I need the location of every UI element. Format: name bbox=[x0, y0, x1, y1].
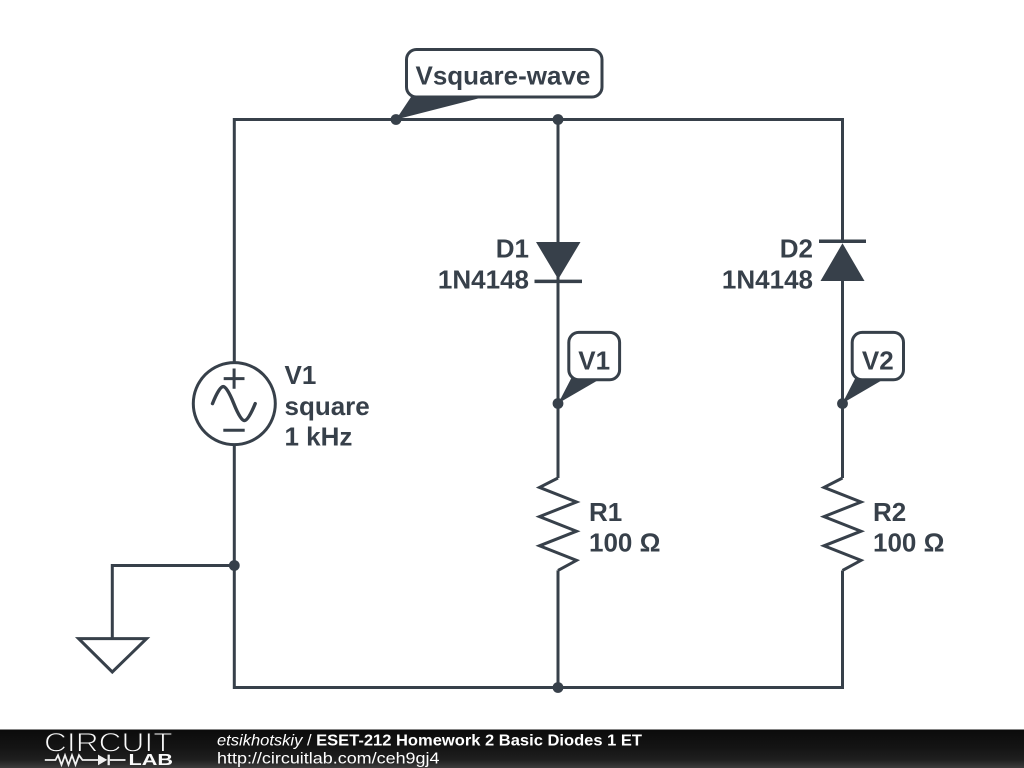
svg-text:V2: V2 bbox=[862, 346, 894, 376]
svg-text:D1: D1 bbox=[496, 233, 529, 263]
svg-text:square: square bbox=[285, 391, 370, 421]
svg-text:1 kHz: 1 kHz bbox=[285, 422, 353, 452]
svg-text:http://circuitlab.com/ceh9gj4: http://circuitlab.com/ceh9gj4 bbox=[217, 750, 440, 767]
svg-text:1N4148: 1N4148 bbox=[438, 265, 529, 295]
svg-text:V1: V1 bbox=[578, 346, 610, 376]
svg-text:R2: R2 bbox=[873, 497, 906, 527]
svg-text:Vsquare-wave: Vsquare-wave bbox=[416, 61, 591, 91]
svg-text:R1: R1 bbox=[589, 497, 622, 527]
svg-text:LAB: LAB bbox=[129, 752, 174, 768]
svg-text:1N4148: 1N4148 bbox=[722, 265, 813, 295]
svg-text:100 Ω: 100 Ω bbox=[589, 527, 660, 557]
svg-text:100 Ω: 100 Ω bbox=[873, 527, 944, 557]
svg-text:etsikhotskiy / ESET-212 Homewo: etsikhotskiy / ESET-212 Homework 2 Basic… bbox=[217, 732, 642, 749]
svg-text:D2: D2 bbox=[780, 233, 813, 263]
svg-text:V1: V1 bbox=[285, 360, 317, 390]
